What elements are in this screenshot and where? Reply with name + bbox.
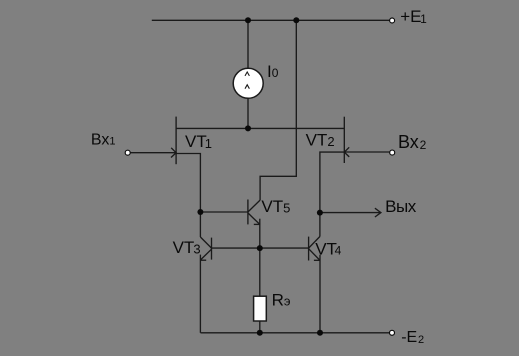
svg-text:Rэ: Rэ [272,290,291,309]
svg-text:VT5: VT5 [261,197,290,216]
svg-text:Вых: Вых [385,197,417,216]
svg-text:VT1: VT1 [185,132,212,151]
svg-text:VT2: VT2 [306,130,335,149]
